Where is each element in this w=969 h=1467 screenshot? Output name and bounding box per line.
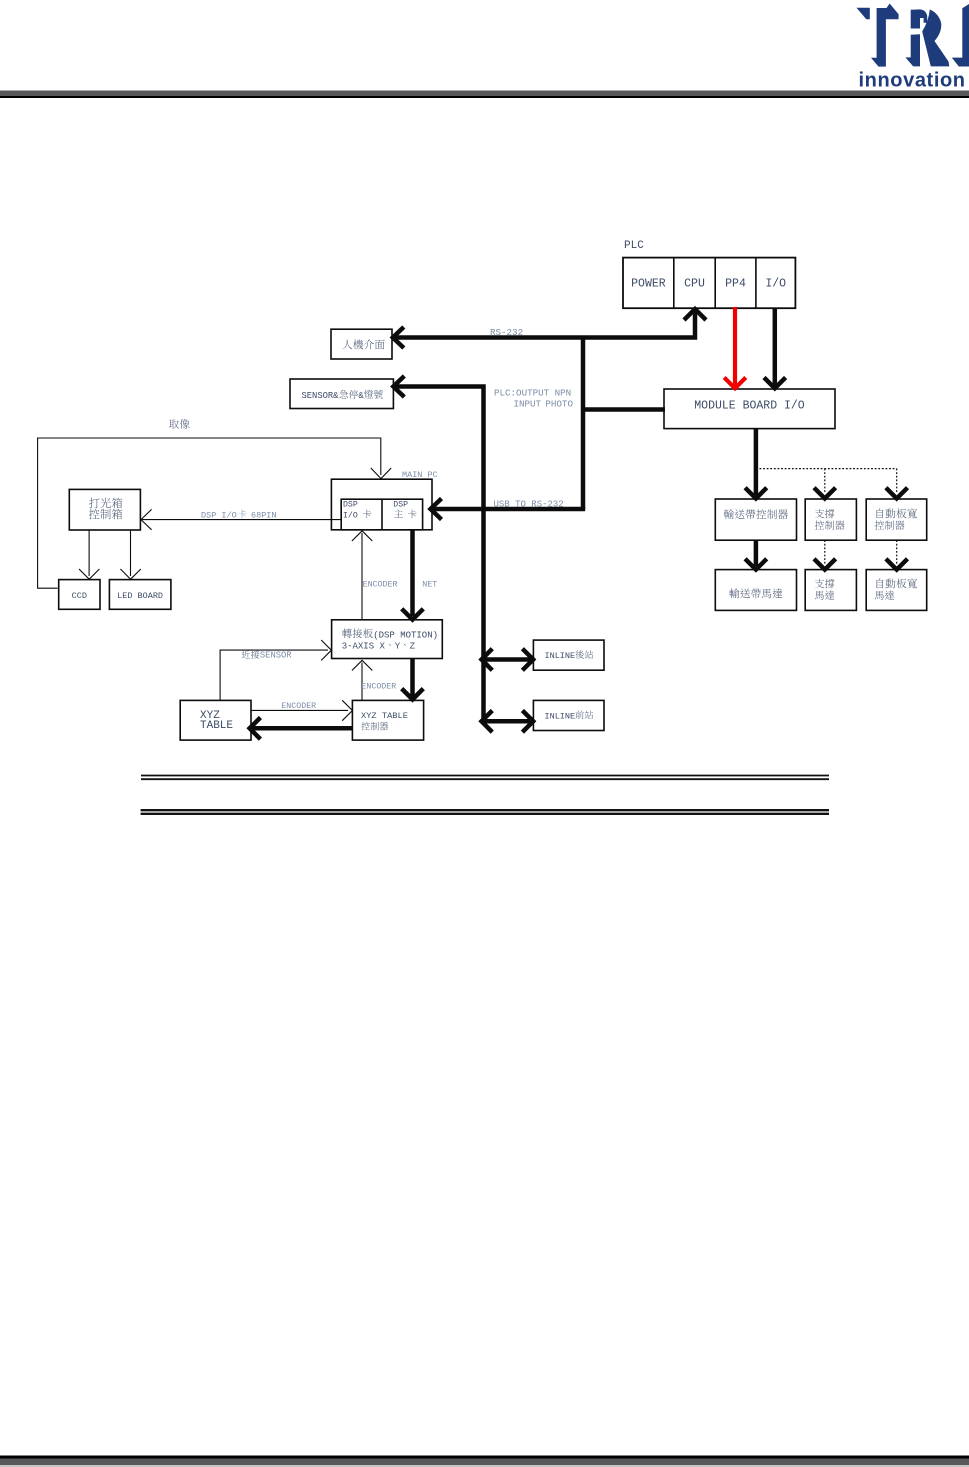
thin arrowhead up into DSP motion board bottom [352, 660, 372, 670]
svg-text:CPU: CPU [684, 278, 705, 291]
box LED BOARD [109, 580, 170, 610]
svg-text:3-AXIS X: 3-AXIS X [342, 641, 386, 651]
box MODULE BOARD I/O [664, 389, 835, 429]
arrowhead left at trunk (front) [482, 711, 493, 733]
svg-text:DSP: DSP [393, 501, 408, 510]
wire 近接SENSOR from XYZ table [220, 650, 328, 700]
label 取像 (imaging) [169, 419, 190, 429]
box XYZ TABLE 控制器 [352, 700, 423, 740]
thin arrowhead down into LED BOARD [120, 569, 140, 579]
box PLC rack [623, 258, 795, 309]
wire red PP4 to MODULE BOARD [733, 307, 737, 386]
box MAIN PC outer [331, 479, 432, 530]
arrowhead down into support controller [814, 488, 836, 499]
svg-text:Z: Z [410, 641, 416, 651]
arrowhead left into MAIN PC [431, 499, 442, 520]
svg-text:&: & [358, 391, 364, 401]
wire DSP I/O card 68PIN [142, 519, 342, 521]
footer black line [0, 1456, 969, 1459]
box 自動板寬控制器 (auto width controller) [866, 499, 927, 540]
box CCD [59, 580, 100, 610]
wire MODULE BOARD down to conveyor controller [754, 429, 759, 495]
label 近接SENSOR [242, 650, 293, 660]
arrowhead left into XYZ table [250, 718, 261, 740]
svg-text:ENCODER: ENCODER [281, 702, 316, 711]
wire double arrow to INLINE front [484, 719, 531, 724]
label PP4 cell [725, 278, 746, 291]
label NET [422, 581, 437, 590]
wire PLC OUTPUT to sensor box and trunk down to inline [394, 387, 484, 722]
label USB TO RS-232 [494, 500, 564, 510]
svg-text:innovation: innovation [859, 70, 966, 92]
logo TRI letter R bowl and leg [922, 9, 949, 66]
box INLINE前站 [533, 700, 604, 730]
arrowhead down into board-width controller [886, 488, 908, 499]
svg-text:POWER: POWER [631, 278, 666, 291]
svg-text:MAIN PC: MAIN PC [402, 470, 438, 480]
svg-text:NET: NET [422, 581, 437, 590]
box INLINE後站 [533, 640, 604, 670]
box 輸送帶控制器 (conveyor controller) [715, 499, 796, 540]
footer gray bar [0, 1459, 969, 1466]
arrowhead down into MODULE BOARD [764, 378, 786, 389]
wire conveyor controller to motor [754, 540, 759, 566]
thin arrowhead right into XYZ controller [342, 700, 352, 720]
wire encoder XYZ table to controller [251, 709, 348, 711]
wire 取像 loop [38, 438, 381, 588]
label POWER cell [631, 278, 666, 291]
red arrowhead down [724, 378, 746, 389]
svg-text:DSP I/O: DSP I/O [201, 511, 237, 521]
svg-text:MODULE BOARD I/O: MODULE BOARD I/O [694, 400, 805, 413]
svg-text:SENSOR&: SENSOR& [302, 391, 340, 401]
box XYZ TABLE [180, 700, 251, 740]
box 支撐馬達 (support motor) [805, 570, 856, 611]
box DSP cards inner [341, 499, 422, 530]
box 支撐控制器 (support controller) [805, 499, 856, 540]
footer light gray bar [0, 1465, 969, 1467]
svg-text:(DSP MOTION): (DSP MOTION) [373, 630, 438, 640]
wire riser RS-232 junction down to USB line [581, 338, 586, 510]
wire light box controller to CCD [88, 530, 90, 576]
wire I/O to MODULE BOARD [773, 309, 778, 386]
box SENSOR&急停&燈號 [290, 379, 393, 409]
wire USB TO RS-232 [432, 507, 585, 512]
wire encoder up into DSP motion board [361, 663, 363, 701]
thin arrowhead down into MAIN PC [371, 468, 391, 479]
dotted wire branch to other controllers [756, 468, 897, 470]
svg-text:Y: Y [395, 641, 401, 651]
svg-text:USB TO RS-232: USB TO RS-232 [494, 500, 564, 510]
label ENCODER upper [363, 581, 398, 590]
svg-text:68PIN: 68PIN [251, 511, 277, 521]
dotted wire down to board-width controller [896, 469, 898, 493]
logo innovation wordmark [859, 70, 966, 92]
double rule upper [141, 776, 829, 780]
box 轉接板 DSP MOTION 3-AXIS [332, 620, 443, 659]
thin arrowhead right into DSP motion board [321, 640, 331, 660]
wire DSP motion board down to XYZ controller [410, 659, 415, 697]
arrowhead left at trunk (rear) [482, 649, 493, 671]
svg-text:I/O: I/O [765, 278, 786, 291]
label INPUT PHOTO [514, 399, 574, 410]
svg-text:CCD: CCD [72, 591, 87, 601]
logo TRI letter T serif wedge [857, 8, 870, 20]
thin arrowhead left into light box controller [141, 509, 152, 529]
svg-text:ENCODER: ENCODER [361, 683, 396, 692]
arrowhead down into XYZ controller [402, 689, 424, 700]
wire NET down to DSP motion board [410, 530, 415, 616]
thin arrowhead up into DSP I/O card [352, 531, 372, 541]
dotted wire support controller to motor [824, 540, 826, 564]
arrowhead left into HMI box [393, 327, 404, 348]
svg-text:LED BOARD: LED BOARD [117, 591, 163, 601]
label ENCODER between tables [281, 702, 316, 711]
svg-text:INLINE: INLINE [545, 711, 576, 721]
label RS-232 [490, 327, 523, 338]
header rule black line [0, 96, 969, 98]
arrowhead down into conveyor motor [745, 559, 767, 570]
arrowhead down into support motor [814, 559, 836, 570]
wire to MODULE BOARD I/O [583, 407, 665, 412]
wire double arrow to INLINE rear [484, 657, 531, 662]
svg-text:TABLE: TABLE [200, 720, 233, 732]
label CPU cell [684, 278, 705, 291]
thin arrowhead down into CCD [79, 569, 99, 579]
svg-text:PLC:OUTPUT NPN: PLC:OUTPUT NPN [494, 388, 571, 399]
header rule gray bar [0, 91, 969, 97]
box 自動板寬馬達 (auto width motor) [866, 570, 927, 611]
wire XYZ controller drive to table [252, 726, 352, 731]
label DSP I/O card [343, 501, 371, 521]
dotted wire board-width controller to motor [896, 540, 898, 564]
svg-text:PLC: PLC [624, 240, 644, 252]
box 輸送帶馬達 (conveyor motor) [715, 570, 796, 611]
logo TRI letter T [871, 4, 899, 67]
label ENCODER lower right [361, 683, 396, 692]
label PLC:OUTPUT NPN [494, 388, 571, 399]
label PLC [624, 240, 644, 252]
svg-text:I/O: I/O [343, 511, 358, 521]
svg-text:INPUT: INPUT [514, 399, 542, 410]
arrowhead down into conveyor controller [745, 488, 767, 499]
svg-text:PHOTO: PHOTO [545, 399, 573, 410]
label DSP main card [393, 501, 416, 519]
double rule lower [141, 810, 829, 814]
arrowhead right into INLINE rear box [522, 649, 533, 671]
logo TRI letter R lower stem [905, 34, 920, 66]
wire ENCODER up to DSP I/O card [361, 533, 363, 620]
wire light box controller to LED BOARD [130, 530, 132, 576]
svg-text:ENCODER: ENCODER [363, 581, 398, 590]
label I/O cell [765, 278, 786, 291]
logo TRI letter R upper stem and bar with hook [911, 9, 928, 28]
wire RS-232 horizontal and riser to CPU [394, 311, 695, 338]
arrowhead right into INLINE front box [522, 711, 533, 733]
svg-text:RS-232: RS-232 [490, 327, 523, 338]
arrowhead down into DSP motion board [402, 609, 424, 620]
label DSP I/O卡 68PIN [201, 510, 277, 521]
box 人機介面 (HMI) [331, 329, 392, 359]
label MAIN PC [402, 470, 438, 480]
dotted wire down to support controller [824, 469, 826, 493]
arrowhead up into CPU [684, 309, 706, 320]
svg-text:SENSOR: SENSOR [260, 651, 292, 661]
arrowhead left into sensor box [393, 376, 404, 397]
box 打光箱控制箱 (light box controller) [69, 489, 140, 530]
svg-text:XYZ TABLE: XYZ TABLE [361, 711, 408, 721]
logo TRI letter I [952, 4, 969, 67]
svg-text:PP4: PP4 [725, 278, 746, 291]
svg-text:INLINE: INLINE [545, 651, 576, 661]
svg-text:DSP: DSP [343, 501, 358, 510]
arrowhead down into board-width motor [886, 559, 908, 570]
